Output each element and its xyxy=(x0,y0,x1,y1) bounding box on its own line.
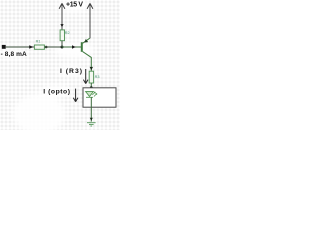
current arrow (base current, right) xyxy=(72,45,76,49)
current arrow (down, into R3) xyxy=(90,67,93,70)
node (junction R1/R2/base) xyxy=(61,46,64,49)
wire (terminal to R1) xyxy=(6,46,35,48)
resistor R1 xyxy=(34,45,44,49)
wire (R1 to node) xyxy=(44,46,62,48)
wire (LED through box bottom to ground) xyxy=(90,97,92,121)
terminal dot R1 right xyxy=(45,46,48,49)
power +15V arrow right xyxy=(87,3,93,8)
resistor R3 xyxy=(89,71,93,83)
current arrow (right, - 8,8 mA) xyxy=(29,45,33,49)
resistor R2 xyxy=(60,30,64,41)
optocoupler box U1 xyxy=(83,88,116,107)
wire (R3 to opto box) xyxy=(90,83,92,92)
svg-text:R3: R3 xyxy=(95,75,100,79)
current arrow (down, into R2) xyxy=(60,24,63,27)
power +15V arrow left xyxy=(59,3,65,8)
wire (R2 to node) xyxy=(61,41,63,47)
base bar xyxy=(81,42,83,52)
emitter arrow (PNP, points to base) xyxy=(84,39,88,43)
svg-text:- 8,8 mA: - 8,8 mA xyxy=(1,51,27,58)
junction dot at box edge xyxy=(90,86,93,89)
ground xyxy=(87,123,96,126)
svg-text:R1: R1 xyxy=(36,40,41,44)
terminal (black square, off-page connection) xyxy=(2,45,6,49)
wire (node to transistor base) xyxy=(62,46,82,48)
svg-text:+15 V: +15 V xyxy=(66,2,83,9)
svg-text:I (R3): I (R3) xyxy=(60,68,83,75)
current arrow (down, to ground) xyxy=(90,118,93,121)
annotation arrow I(opto) down xyxy=(73,89,78,102)
annotation arrow I(R3) down xyxy=(83,69,88,84)
LED D1 (inside optocoupler) xyxy=(86,92,94,98)
LED emission arrows xyxy=(92,92,97,97)
collector lead xyxy=(83,52,92,72)
emitter lead (from +15V) xyxy=(83,38,90,43)
svg-text:R2: R2 xyxy=(65,31,70,35)
svg-text:I (opto): I (opto) xyxy=(43,89,70,96)
transistor Q1 (PNP) xyxy=(82,38,92,71)
